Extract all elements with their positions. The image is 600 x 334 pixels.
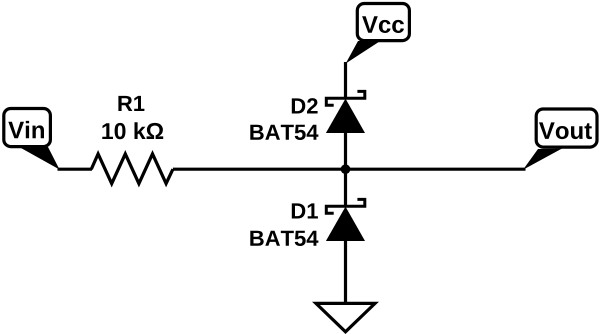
- value 10 kΩ: [102, 122, 163, 139]
- wire Vin to R1: [58, 168, 93, 171]
- wire junction to Vout: [346, 168, 526, 171]
- label D2: [292, 98, 318, 113]
- wire D1 to ground: [344, 240, 347, 304]
- junction node: [341, 164, 351, 174]
- wire junction to D1: [344, 169, 347, 206]
- port Vout: [523, 109, 597, 170]
- wire D2 to junction: [344, 132, 347, 170]
- ground: [316, 303, 375, 331]
- label R1: [118, 96, 144, 111]
- label D1: [292, 203, 318, 218]
- resistor R1: [91, 154, 173, 184]
- diode D2 (Schottky BAT54): [326, 91, 365, 133]
- value BAT54 (D1): [250, 231, 318, 246]
- wire R1 to junction: [173, 168, 346, 171]
- wire Vcc to D2: [344, 62, 347, 98]
- port Vin: [4, 109, 60, 170]
- diode D1 (Schottky BAT54): [326, 199, 365, 241]
- value BAT54 (D2): [250, 125, 318, 140]
- port Vcc: [346, 4, 410, 64]
